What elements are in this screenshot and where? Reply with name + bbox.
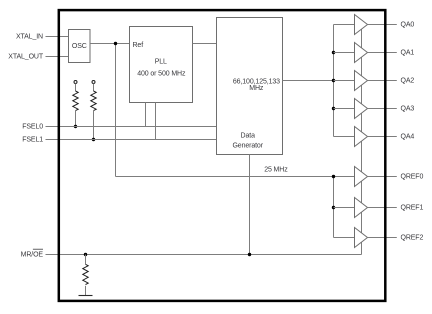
wire XTAL_IN to OSC (46, 36, 69, 38)
svg-text:PLL: PLL (155, 58, 167, 65)
wire output-enable chain QREF0-QREF1 (361, 181, 363, 203)
output buffer QA1 (355, 43, 397, 63)
output buffer QREF2 (355, 228, 397, 248)
svg-text:QA0: QA0 (401, 21, 415, 28)
wire QA0 branch (334, 24, 355, 26)
wire QA bus vertical (333, 25, 335, 137)
ground symbol (79, 295, 93, 297)
wire output-enable chain QA1-QA2 (361, 57, 363, 76)
junction node on FSEL0 (74, 125, 77, 128)
wire DG bottom to MR node (249, 155, 251, 255)
wire QREF1 branch (334, 207, 355, 209)
svg-text:QREF0: QREF0 (401, 173, 424, 180)
output buffer QA2 (355, 71, 397, 91)
wire QA3 branch (334, 108, 355, 110)
svg-text:Data: Data (241, 133, 256, 140)
svg-text:FSEL0: FSEL0 (22, 123, 43, 130)
junction QREF1 tap (332, 206, 335, 209)
pin label MR/OE with overline on OE (21, 249, 44, 258)
wire OSC output to PLL Ref (90, 43, 130, 45)
output buffer QREF1 (355, 198, 397, 218)
wire QA2 branch (334, 80, 355, 82)
wire QREF2 branch (334, 237, 355, 239)
wire output-enable chain QA3-QA4 (361, 113, 363, 132)
junction node MR/OE pull-down (84, 253, 87, 256)
pull-down resistor on MR/OE (83, 255, 88, 296)
junction QREF0 tap (332, 175, 335, 178)
wire QREF bus vertical (333, 177, 335, 238)
Data Generator block (217, 18, 283, 155)
svg-text:QA2: QA2 (401, 77, 415, 84)
wire output-enable chain QREF2-MR/OE (361, 242, 363, 254)
wire FSEL0 up to PLL (145, 103, 147, 127)
svg-text:MHz: MHz (249, 85, 264, 92)
junction QA3 tap (332, 107, 335, 110)
outer device boundary (59, 10, 386, 301)
wire QA1 branch (334, 52, 355, 54)
output buffer QA3 (355, 99, 397, 119)
svg-text:Generator: Generator (232, 143, 263, 150)
svg-text:QA3: QA3 (401, 105, 415, 112)
output buffer QA0 (355, 15, 397, 35)
junction QA1 tap (332, 51, 335, 54)
svg-text:XTAL_OUT: XTAL_OUT (8, 53, 44, 60)
svg-text:XTAL_IN: XTAL_IN (16, 33, 43, 40)
junction node on FSEL1 (92, 138, 95, 141)
pull-up resistor on FSEL1 (91, 81, 96, 140)
wire FSEL0 (46, 126, 217, 128)
wire 25 MHz line (116, 176, 355, 178)
wire output-enable chain QA0-QA1 (361, 29, 363, 48)
wire output-enable chain QA4-QREF0 (361, 141, 363, 172)
wire MR/OE (46, 254, 362, 256)
wire QA4 branch (334, 136, 355, 138)
wire Data Generator output to QA bus (283, 80, 334, 82)
svg-text:QREF2: QREF2 (401, 234, 424, 241)
junction QA2 tap (332, 79, 335, 82)
output buffer QA4 (355, 127, 397, 147)
oscillator OSC (69, 30, 91, 63)
wire 25 MHz feed down (115, 44, 117, 177)
svg-text:QA1: QA1 (401, 49, 415, 56)
PLL block (130, 27, 193, 103)
junction node: OSC output (114, 42, 117, 45)
wire FSEL1 (46, 139, 217, 141)
svg-text:FSEL1: FSEL1 (22, 136, 43, 143)
svg-text:QA4: QA4 (401, 133, 415, 140)
wire XTAL_OUT to OSC (46, 56, 69, 58)
wire output-enable chain QREF1-QREF2 (361, 212, 363, 233)
pull-up resistor on FSEL0 (73, 81, 78, 127)
svg-text:QREF1: QREF1 (401, 204, 424, 211)
wire FSEL1 up to PLL (155, 103, 157, 140)
wire output-enable chain QA2-QA3 (361, 85, 363, 104)
junction node MR/OE at Data Generator (248, 253, 251, 256)
svg-text:25 MHz: 25 MHz (264, 166, 288, 173)
svg-text:400 or 500 MHz: 400 or 500 MHz (137, 71, 186, 78)
svg-text:OSC: OSC (72, 43, 87, 50)
output buffer QREF0 (355, 167, 397, 187)
wire PLL to Data Generator (193, 43, 217, 45)
svg-text:Ref: Ref (133, 42, 144, 49)
svg-text:MR/OE: MR/OE (21, 251, 44, 258)
